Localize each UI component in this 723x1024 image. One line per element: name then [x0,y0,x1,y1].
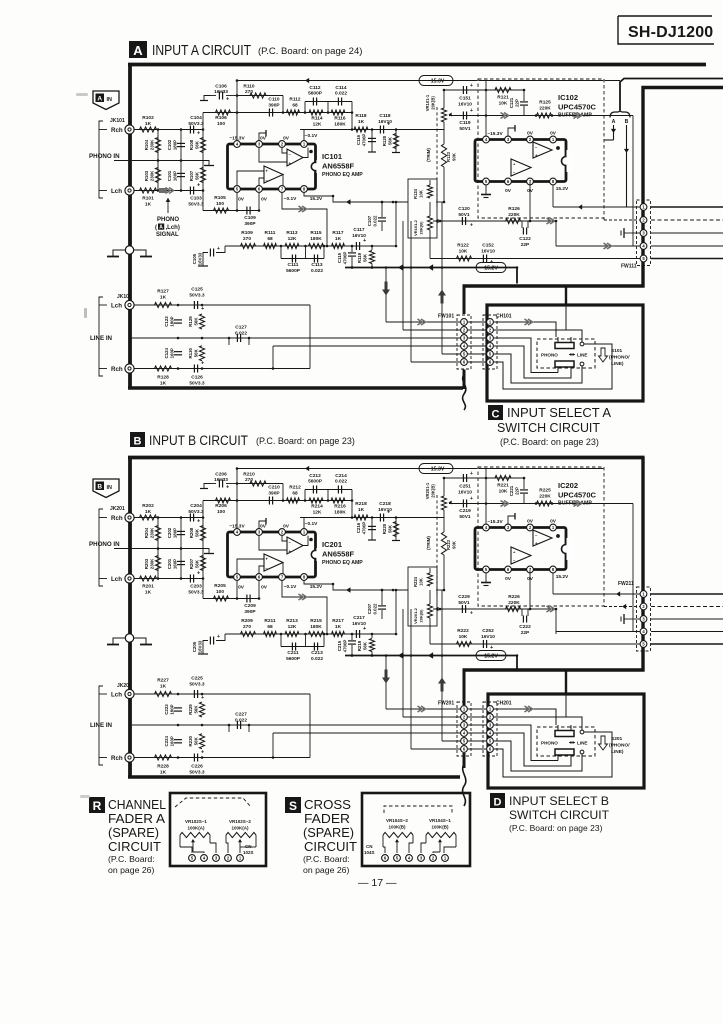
svg-text:R114: R114 [311,116,323,122]
power rail -15.3V [237,80,620,82]
svg-text:R127: R127 [157,289,169,295]
output lines FW211 [651,593,723,595]
wire A/B select feed [620,79,723,111]
svg-text:IC101: IC101 [322,152,342,161]
potentiometer VR101-1 [443,90,445,108]
svg-text:180P: 180P [173,140,178,150]
wire feeder line5 [441,202,443,354]
svg-text:C252: C252 [482,628,494,634]
wire 15.2V return row [430,643,640,645]
capacitor C120 [461,217,463,225]
svg-text:SWITCH CIRCUIT: SWITCH CIRCUIT [497,421,600,435]
box D border [488,694,644,788]
power oval 15.2V [345,655,517,657]
svg-text:R209: R209 [241,618,253,624]
chassis ground on border [125,246,133,254]
svg-text:VR104S−2: VR104S−2 [386,818,408,823]
svg-text:68: 68 [267,624,273,630]
pin 8 [550,566,557,573]
pin 1 [550,136,557,143]
wiper VR104S-2 [396,841,398,852]
svg-text:180P: 180P [170,316,175,326]
power oval 15.2V [345,267,517,269]
dashed boundary buffer sub-board [478,467,604,606]
potentiometer VR201-1 [443,478,445,496]
svg-text:220K: 220K [539,106,551,112]
node pin FW111-4 [640,243,647,250]
svg-text:R218: R218 [355,501,367,507]
dashed wire to FW211 line2 [603,605,605,608]
wire Rch row [134,129,203,131]
svg-text:SWITCH CIRCUIT: SWITCH CIRCUIT [509,808,610,822]
svg-text:1K: 1K [358,507,365,513]
wire line5 in [600,258,640,260]
svg-text:100: 100 [216,589,224,595]
svg-text:R110: R110 [243,84,255,90]
jack Lch line [125,689,134,698]
resistor R215 [309,631,324,636]
phono cartridge marker [166,188,171,194]
svg-text:−15.3V: −15.3V [487,131,503,137]
pin 5 [483,566,490,573]
svg-text:C227: C227 [235,712,247,718]
bus FW101 lower stub [463,370,466,390]
svg-text:180K: 180K [334,510,346,516]
svg-text:90K: 90K [452,541,457,549]
resistor R214 [309,498,323,503]
svg-text:4700P: 4700P [343,640,348,653]
svg-text:C206: C206 [215,472,227,478]
capacitor C101 [180,161,182,191]
svg-text:50V1: 50V1 [459,126,471,132]
connector CH101 [483,315,497,369]
svg-text:R111: R111 [265,230,276,236]
capacitor C252 [482,640,484,648]
capacitor C122 [521,221,523,228]
svg-text:0V: 0V [238,197,245,203]
svg-text:12K: 12K [313,122,322,128]
wire CH row6 nest loop [494,732,612,777]
capacitor C225 [193,690,195,698]
op-amp IC102 [475,140,566,182]
ground mid row [204,161,209,166]
capacitor C210 [268,497,270,505]
svg-text:C118: C118 [379,113,391,119]
wire output row [351,113,353,130]
svg-text:16V10: 16V10 [458,490,472,496]
svg-text:+: + [470,108,473,114]
svg-text:C101: C101 [167,170,172,181]
connector FW201 [457,702,471,756]
wire feeder line5 [441,590,443,741]
svg-text:R210: R210 [243,472,255,478]
wire line-in to line 4 [273,345,461,347]
switch S101 dashed outline [537,339,595,368]
svg-text:+: + [217,634,220,640]
svg-text:+: + [201,750,204,756]
capacitor C217 [355,630,357,638]
svg-text:C126: C126 [191,375,203,381]
svg-text:50V3.3: 50V3.3 [188,590,204,596]
svg-text:100: 100 [217,509,225,515]
node pin FW201-4 [461,730,468,737]
svg-text:C104: C104 [190,115,202,121]
svg-text:R121: R121 [497,95,509,101]
flag A-IN [93,479,119,498]
pin 6 [505,178,512,185]
svg-text:C214: C214 [335,473,347,479]
resistor R202 [140,515,157,520]
svg-text:230K: 230K [150,170,155,181]
svg-text:+: + [197,131,200,137]
capacitor C204 [189,514,191,522]
svg-text:50V3.3: 50V3.3 [189,381,205,387]
svg-text:50V1: 50V1 [458,212,470,218]
svg-text:R230: R230 [188,735,193,746]
wire rail to pin4 [236,469,238,530]
svg-text:C109: C109 [244,215,256,221]
svg-text:−15.3V: −15.3V [428,467,445,473]
box A border top [128,63,706,67]
svg-text:−15.3V: −15.3V [229,524,245,530]
svg-text:+: + [197,519,200,525]
svg-text:FW111: FW111 [621,264,637,270]
svg-text:PHONO IN: PHONO IN [89,153,120,160]
wire pin1 stub [303,130,305,141]
svg-text:(TRIM): (TRIM) [426,148,431,162]
svg-text:180P: 180P [173,528,178,538]
svg-text:,Lch): ,Lch) [166,225,180,231]
svg-text:R106: R106 [215,115,227,121]
resistor R203 [157,549,159,579]
svg-text:20K(B): 20K(B) [431,484,436,498]
svg-text:R211: R211 [264,618,276,624]
wire line-in loop [134,693,310,695]
svg-text:+: + [217,246,220,252]
svg-text:+: + [470,83,473,89]
svg-text:15.2V: 15.2V [556,186,569,192]
pin 2 [279,529,286,536]
resistor R113 [285,243,299,248]
section label R [89,797,105,813]
svg-text:on page 26): on page 26) [108,865,154,875]
wire Lch row [134,190,203,192]
node pin CH101-5 [487,351,494,358]
node pin FW211-5 [640,641,647,648]
node pin CN104S-1 [442,855,449,862]
wire feeder line2 [402,221,404,330]
resistor R207 [202,549,204,579]
box A border bottom [128,386,463,389]
resistor R114 [309,110,323,115]
resistor R223 [443,510,445,532]
svg-text:CHANNEL: CHANNEL [108,797,166,812]
ground pin3 IC102 [508,516,515,524]
trim dashed wiper [436,495,438,595]
svg-text:R102: R102 [142,115,154,121]
node pin FW211-1 [640,591,647,598]
svg-text:0.022: 0.022 [335,479,347,485]
svg-text:390P: 390P [244,221,256,227]
svg-text:IC201: IC201 [322,540,342,549]
wire R110 drop [282,484,284,501]
svg-text:−15.3V: −15.3V [428,79,445,85]
svg-text:VR201-1: VR201-1 [425,482,430,499]
wire CH row2 to upper pole [494,330,582,342]
resistor R109 [241,243,256,248]
internal wiring IC101 [282,148,287,153]
wire select B [626,125,628,207]
node pin FW111-5 [640,255,647,262]
svg-text:C122: C122 [519,236,531,242]
svg-text:16V10: 16V10 [378,507,392,513]
svg-text:5600P: 5600P [286,268,301,274]
capacitor C107 [381,202,383,217]
svg-text:CH201: CH201 [496,701,512,707]
svg-text:C226: C226 [191,764,203,770]
svg-text:10K: 10K [499,101,508,107]
svg-text:B: B [625,119,629,125]
svg-text:−0.1V: −0.1V [284,196,297,202]
svg-text:56K: 56K [388,136,393,145]
svg-text:C110: C110 [268,97,280,103]
svg-text:4700P: 4700P [362,134,367,147]
pin 4 [483,136,490,143]
svg-text:C121: C121 [509,97,514,108]
fader A spare box border [170,793,266,866]
svg-text:0V: 0V [238,585,245,591]
svg-text:0V: 0V [260,524,267,530]
brace A/B select [610,110,630,118]
wire CH row3 to lower contact [494,725,558,761]
svg-text:C151: C151 [459,96,471,102]
svg-text:16V10: 16V10 [481,249,495,255]
box B border left [128,456,132,779]
capacitor C151 [462,86,464,94]
wire line-in mid [130,337,311,339]
svg-text:LINE: LINE [577,353,587,358]
box C border [487,305,643,401]
svg-text:C114: C114 [335,85,347,91]
dashed spare wiring cross [384,806,452,813]
capacitor C126 [193,365,195,373]
capacitor C212 [312,486,314,494]
svg-text:A: A [97,95,102,102]
node pin FW101-2 [461,327,468,334]
wire R105 row [202,579,204,599]
bus FW201 lower stub [463,753,466,768]
capacitor C223 [174,707,182,709]
resistor R228 [155,755,172,760]
svg-text:1K: 1K [160,381,167,387]
svg-text:C125: C125 [191,287,203,293]
wire bottom EQ row [225,245,396,247]
svg-text:C123: C123 [164,316,169,327]
bus stub into box C top [565,287,567,306]
svg-text:R128: R128 [157,375,169,381]
svg-text:INPUT SELECT B: INPUT SELECT B [509,794,609,808]
pin 7 [279,574,286,581]
switch S201 dashed outline [537,727,595,756]
jack Lch [125,574,134,583]
svg-text:100K(B): 100K(B) [431,825,449,830]
cable squiggle below box B [463,764,466,806]
resistor R110 [237,95,283,97]
svg-text:0V: 0V [283,524,290,530]
svg-text:15.2V: 15.2V [310,584,323,590]
section label D [490,793,505,808]
resistor R216 [331,498,345,503]
svg-text:16V33: 16V33 [214,477,228,483]
svg-text:+: + [201,306,204,312]
svg-text:LINE): LINE) [611,749,624,755]
svg-text:50V3.3: 50V3.3 [189,293,205,299]
svg-text:AN6558F: AN6558F [322,162,355,171]
svg-text:1K: 1K [145,202,152,208]
svg-text:C127: C127 [235,325,247,331]
wire pin7 drop [529,570,531,610]
wire CH row2 to upper pole [494,717,582,730]
pin 7 [279,186,286,193]
svg-text:R227: R227 [157,678,169,684]
wire feeder line6 [410,221,412,362]
svg-text:FW211: FW211 [618,581,634,587]
capacitor C103 [189,187,191,195]
capacitor C123 [174,319,182,321]
resistor R126 [506,218,521,223]
node pin FW201-1 [461,706,468,713]
wire Rch row [134,517,203,519]
resistor R104 [157,130,159,161]
svg-text:INPUT B CIRCUIT: INPUT B CIRCUIT [149,433,248,448]
capacitor C117 [355,242,357,250]
wire mid row [114,548,204,550]
svg-text:IC102: IC102 [558,93,578,102]
node pin FW101-4 [461,343,468,350]
section label C [488,405,503,420]
wire pin7 drop [529,182,531,222]
wiper VR102S-2 [239,841,241,852]
wire R110 drop [282,96,284,113]
line-in bracket [99,686,103,765]
svg-text:— 17 —: — 17 — [358,877,397,889]
switch S101 upper contact [555,343,574,349]
node pin CN102S-2 [225,855,232,862]
resistor R209 [241,631,256,636]
svg-text:100: 100 [217,121,225,127]
svg-text:10K: 10K [459,249,468,255]
svg-text:0V: 0V [550,131,557,137]
node pin FW111-2 [640,217,647,224]
resistor R210 [237,483,283,485]
svg-text:CN: CN [245,844,252,849]
svg-text:on page 26): on page 26) [303,865,349,875]
capacitor C152 [482,255,484,263]
wire pin7 out [282,192,327,246]
svg-text:R120: R120 [382,135,387,146]
svg-text:390P: 390P [244,609,256,615]
pin 2 [527,136,534,143]
svg-text:VR101-1: VR101-1 [425,94,430,111]
svg-text:R201: R201 [142,584,154,590]
svg-text:R122: R122 [457,243,469,249]
pin 3 [256,529,263,536]
capacitor C102 [180,130,182,161]
svg-text:4700P: 4700P [343,252,348,265]
svg-text:PHONO: PHONO [541,353,558,358]
svg-text:+: + [197,571,200,577]
resistor R218 [354,515,368,520]
svg-text:−0.1V: −0.1V [284,584,297,590]
input bracket [99,121,103,198]
resistor R227 [155,691,172,696]
svg-text:R215: R215 [310,618,322,624]
fader A wires [179,835,181,847]
svg-text:22P: 22P [521,630,530,636]
resistor R225 [537,501,552,506]
node pin CN102S-5 [189,855,196,862]
dashed spare wiring bridge [175,798,251,807]
model number box SH-DJ1200 [618,15,712,17]
svg-text:220K: 220K [508,212,520,218]
jack Lch line [125,300,134,309]
svg-text:56K: 56K [195,171,200,180]
svg-text:(P.C. Board: on page 23): (P.C. Board: on page 23) [500,437,599,447]
svg-text:UPC4570C: UPC4570C [558,491,597,500]
svg-text:1K: 1K [335,236,342,242]
section label A [129,41,147,58]
svg-text:C105: C105 [192,253,197,264]
svg-text:R203: R203 [144,558,149,569]
EQ bottom branch [281,646,324,648]
bus drop to FW201 [463,670,466,705]
capacitor C221 [523,478,525,489]
svg-text:C219: C219 [459,508,471,514]
svg-text:100: 100 [216,201,224,207]
svg-text:R116: R116 [334,116,346,122]
wire line4 in [556,245,640,247]
svg-text:+: + [470,471,473,477]
wire line4 stub [272,733,274,758]
svg-text:C106: C106 [215,84,227,90]
svg-text:R202: R202 [142,503,154,509]
svg-text:R125: R125 [539,100,551,106]
svg-text:102S: 102S [243,850,254,855]
svg-text:270: 270 [243,624,251,630]
resistor R211 [264,631,277,636]
svg-text:C229: C229 [458,594,470,600]
svg-text:PHONO: PHONO [157,217,179,223]
svg-text:R222: R222 [457,628,469,634]
svg-text:15.2V: 15.2V [484,654,498,660]
capacitor C224 [174,739,182,741]
capacitor C109 [246,207,248,215]
op-amp IC202 [475,528,566,570]
cross fader spare box border [362,793,470,866]
svg-text:22P: 22P [515,487,520,495]
svg-text:160P: 160P [173,171,178,181]
resistor R130 [199,346,204,361]
svg-text:1K: 1K [145,121,152,127]
input bracket [99,509,103,586]
junction dots line-in [177,693,180,696]
svg-text:12K: 12K [313,510,322,516]
svg-text:R123: R123 [446,151,451,162]
svg-text:(SPARE): (SPARE) [303,825,354,840]
svg-text:C225: C225 [191,676,203,682]
resistor R206 [216,498,231,503]
svg-text:0.022: 0.022 [373,215,378,227]
